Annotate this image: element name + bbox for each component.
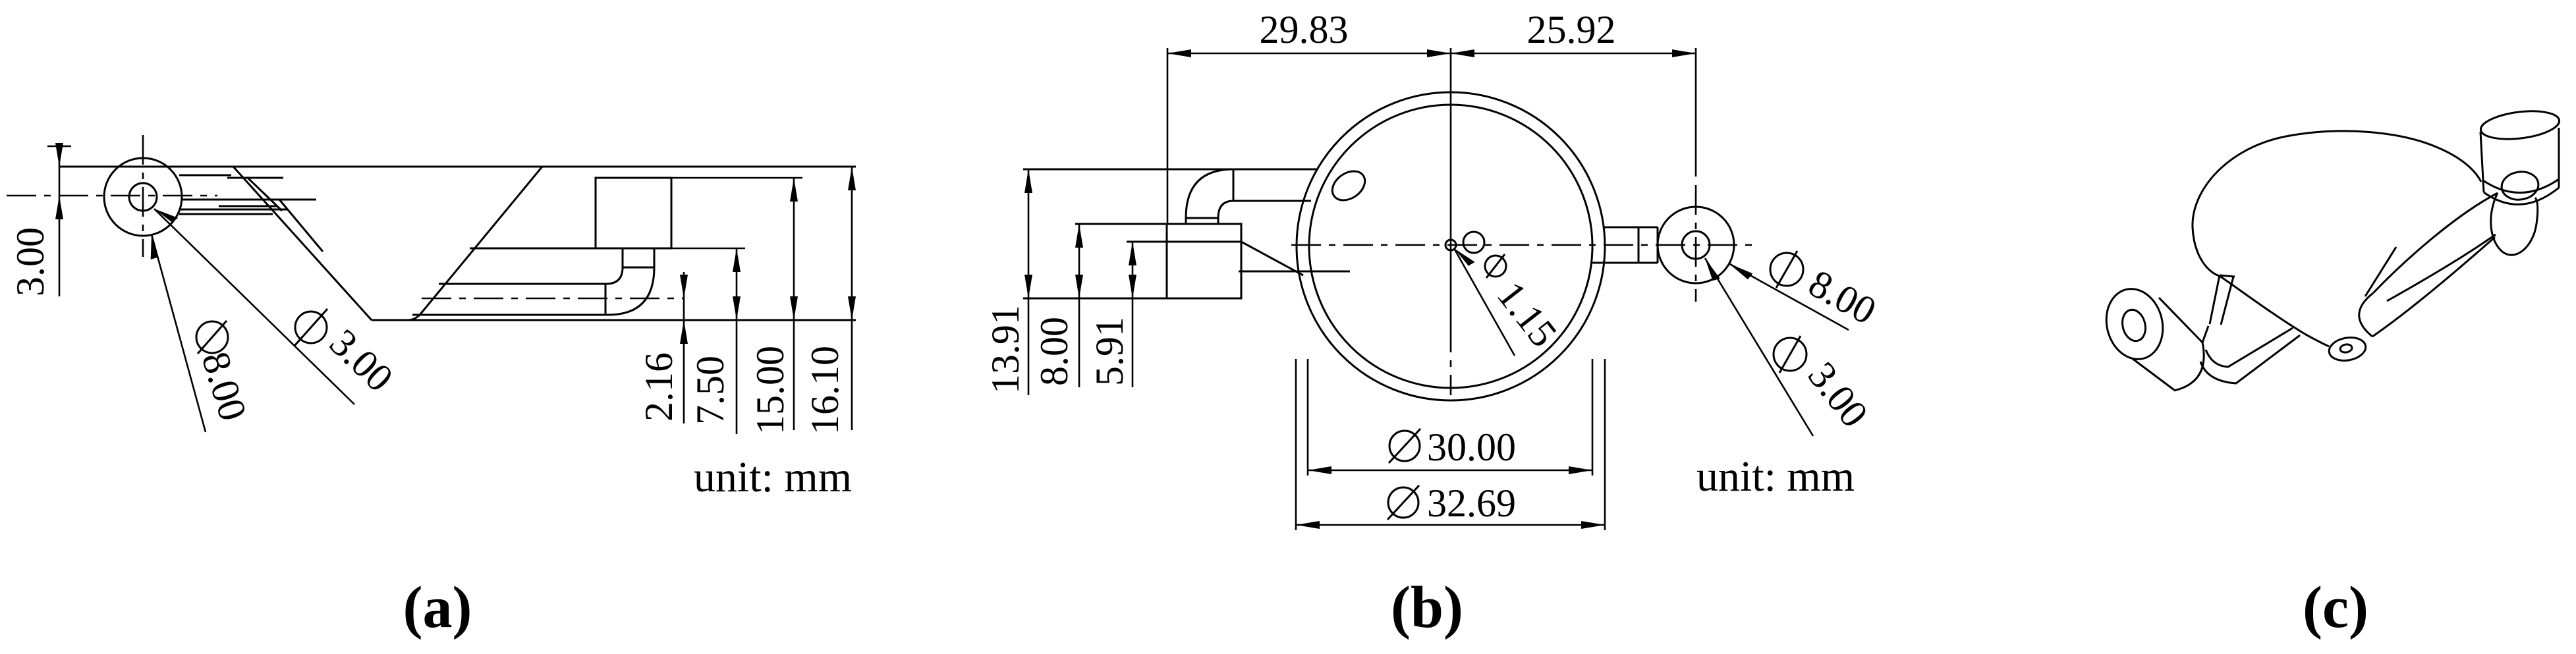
svg-text:(c): (c): [2303, 575, 2368, 640]
svg-text:30.00: 30.00: [1427, 425, 1516, 469]
svg-text:unit: mm: unit: mm: [694, 453, 852, 501]
svg-text:8.00: 8.00: [1032, 317, 1076, 386]
svg-text:unit: mm: unit: mm: [1696, 452, 1855, 501]
svg-text:15.00: 15.00: [748, 346, 792, 435]
svg-text:3.00: 3.00: [9, 227, 52, 296]
svg-text:16.10: 16.10: [803, 346, 847, 435]
svg-text:7.50: 7.50: [688, 356, 732, 425]
svg-text:13.91: 13.91: [984, 305, 1027, 394]
svg-text:25.92: 25.92: [1527, 8, 1616, 51]
svg-text:(b): (b): [1391, 575, 1463, 640]
svg-text:29.83: 29.83: [1260, 8, 1349, 51]
svg-text:5.91: 5.91: [1088, 317, 1131, 386]
svg-text:(a): (a): [403, 575, 472, 640]
svg-text:32.69: 32.69: [1427, 481, 1516, 525]
svg-text:2.16: 2.16: [637, 352, 681, 422]
